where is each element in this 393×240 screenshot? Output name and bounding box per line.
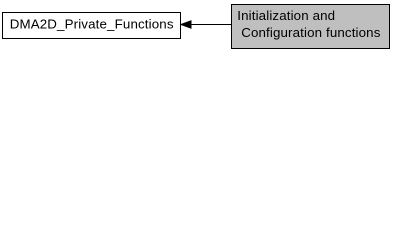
background bbox=[0, 0, 393, 52]
svg-text:Initialization and: Initialization and bbox=[237, 8, 335, 23]
node DMA2D_Private_Functions bbox=[3, 13, 181, 39]
svg-text:Configuration functions: Configuration functions bbox=[241, 25, 381, 40]
svg-text:DMA2D_Private_Functions: DMA2D_Private_Functions bbox=[10, 17, 174, 32]
node Initialization and Configuration functions bbox=[232, 5, 390, 49]
arrowhead pointing left bbox=[181, 21, 191, 28]
edge wire from grey node to white node bbox=[181, 21, 232, 28]
